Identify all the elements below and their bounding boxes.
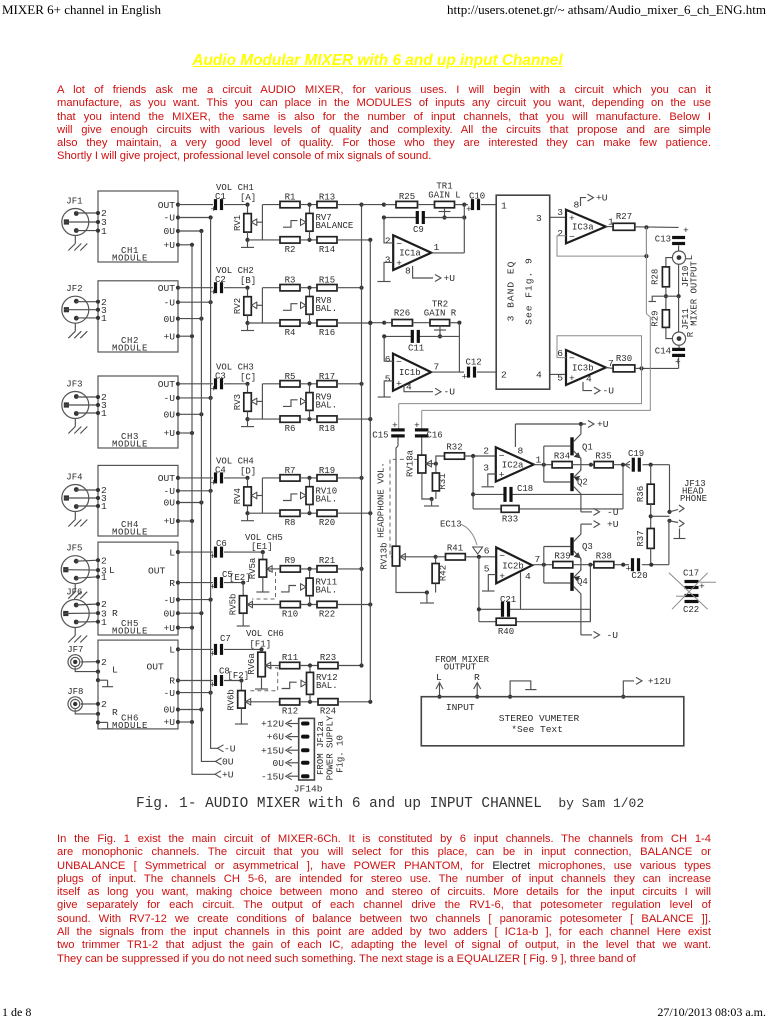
svg-text:0U: 0U (163, 226, 175, 237)
svg-text:C15: C15 (372, 431, 388, 441)
resistor R22 (317, 601, 337, 607)
svg-text:6: 6 (385, 354, 391, 365)
svg-text:R20: R20 (319, 518, 335, 528)
op-amp IC3b (566, 350, 606, 385)
svg-text:R1: R1 (285, 193, 296, 203)
power pin +6V (288, 736, 299, 738)
svg-text:C17: C17 (683, 569, 699, 579)
svg-text:-U: -U (163, 486, 175, 497)
svg-text:1: 1 (101, 408, 107, 419)
svg-text:IC1b: IC1b (399, 368, 421, 378)
wire -V CH4 to -V bus (178, 490, 211, 492)
base wire Q1 (544, 445, 571, 447)
resistor R40 row (479, 621, 496, 623)
volume pot RV1 (247, 205, 249, 214)
svg-text:JF1: JF1 (66, 197, 82, 207)
svg-text:BAL.: BAL. (316, 304, 338, 314)
svg-text:R12: R12 (282, 707, 298, 717)
wire L bus to summing node (362, 204, 384, 206)
svg-text:VOL CH4: VOL CH4 (216, 456, 254, 466)
svg-text:R: R (169, 676, 175, 687)
svg-text:R35: R35 (595, 452, 611, 462)
ground stub JF8 (97, 714, 99, 723)
mid node R28 R29 (665, 287, 667, 310)
svg-text:R11: R11 (282, 653, 298, 663)
page header left (2, 2, 161, 18)
module box CH4 (98, 465, 178, 536)
resistor R20 (317, 510, 337, 516)
output jack JF10 (672, 251, 685, 264)
op-amp IC3a (566, 210, 606, 244)
svg-text:L: L (169, 547, 175, 558)
resistor R12 (280, 699, 300, 705)
wiper wire of RV3 (257, 400, 263, 402)
svg-text:C18: C18 (517, 484, 533, 494)
svg-text:0U: 0U (163, 498, 175, 509)
svg-text:R2: R2 (285, 245, 296, 255)
svg-text:RV3: RV3 (233, 394, 243, 410)
svg-text:C22: C22 (683, 605, 699, 615)
preset symbol RV11 (281, 586, 296, 592)
svg-text:+: + (211, 477, 217, 488)
svg-text:2: 2 (501, 370, 507, 381)
svg-text:R8: R8 (285, 518, 296, 528)
node output L (635, 226, 679, 229)
power wire IC2a pin8 (514, 424, 516, 447)
ground IC1a +input (378, 281, 391, 283)
svg-text:STEREO VUMETER: STEREO VUMETER (499, 713, 580, 724)
svg-text:+: + (569, 373, 575, 384)
svg-text:R: R (474, 672, 480, 683)
resistor R8 (280, 510, 300, 516)
resistor R32 (445, 453, 465, 459)
wiper wire RV6a to R11 (265, 665, 280, 667)
wire JF5 pin1 (76, 577, 98, 578)
svg-text:Fig. 10: Fig. 10 (336, 735, 346, 773)
svg-text:+15U: +15U (261, 745, 284, 756)
resistor R18 (317, 416, 337, 422)
svg-text:R7: R7 (285, 466, 296, 476)
svg-text:-U: -U (163, 595, 175, 606)
wire -V CH5 to bus (178, 599, 211, 601)
power pin 0V (288, 762, 299, 764)
ground of JF1 (74, 236, 76, 244)
svg-text:EC13: EC13 (440, 520, 462, 530)
wire wiper link vertical (261, 288, 263, 323)
svg-text:4: 4 (536, 370, 542, 381)
resistor R36 (650, 465, 652, 485)
ground of RV2 (247, 315, 249, 323)
svg-text:MODULE: MODULE (112, 627, 148, 637)
balance pot RV8 (309, 288, 311, 297)
resistor R6 (280, 416, 300, 422)
svg-text:C10: C10 (469, 192, 485, 202)
svg-text:IC3a: IC3a (572, 223, 594, 233)
-V arrow Q2 (581, 511, 592, 513)
capacitor C10 (464, 204, 468, 206)
page footer left (2, 1005, 31, 1020)
mid node R36 R37 (650, 504, 652, 528)
wire wiper link vertical (261, 205, 263, 240)
capacitor C5 (178, 582, 213, 584)
svg-text:MODULE: MODULE (112, 254, 148, 264)
+V arrow IC3a (581, 198, 587, 206)
resistor R3 (280, 285, 300, 291)
svg-text:R: R (112, 608, 118, 619)
wiper wire of RV2 (257, 304, 263, 306)
balance pot RV12 (309, 666, 311, 673)
wiper wire RV6b to R12 (245, 701, 280, 703)
svg-text:R33: R33 (502, 515, 518, 525)
-V bus arrow (218, 745, 224, 752)
svg-text:MODULE: MODULE (112, 344, 148, 354)
wire noninverting IC2b (488, 575, 496, 591)
svg-text:Q4: Q4 (577, 577, 588, 587)
wire R20 to R bus (337, 512, 370, 514)
op-amp IC1b (393, 354, 431, 391)
svg-text:R: R (686, 331, 696, 337)
wire R19 to L bus (337, 477, 362, 479)
preset symbol RV12 (282, 682, 297, 688)
svg-text:MODULE: MODULE (112, 721, 148, 731)
svg-text:OUT: OUT (158, 283, 176, 294)
svg-text:OUT: OUT (158, 200, 176, 211)
svg-text:HEADPHONE VOL.: HEADPHONE VOL. (377, 462, 387, 538)
svg-text:1: 1 (101, 572, 107, 583)
ground RV13b R42 (396, 566, 427, 593)
resistor R19 (317, 475, 337, 481)
resistor R24 (318, 699, 338, 705)
svg-text:2: 2 (101, 657, 107, 668)
transistor Q3 (570, 537, 573, 555)
resistor R34 (552, 462, 572, 468)
top row wire to resistor R5 (262, 383, 280, 385)
base wire Q3 (544, 546, 571, 548)
XLR connector JF3 (62, 392, 89, 419)
svg-text:C13: C13 (655, 235, 671, 245)
svg-text:C11: C11 (408, 344, 424, 354)
svg-text:+: + (466, 204, 472, 215)
wire R37 down (650, 548, 652, 565)
svg-text:+U: +U (607, 519, 619, 530)
wire R29 to JF11 (666, 327, 673, 338)
svg-text:0U: 0U (272, 758, 284, 769)
power pin +12V (288, 723, 299, 725)
svg-text:3 BAND EQ: 3 BAND EQ (506, 261, 517, 322)
resistor R15 (317, 285, 337, 291)
node E2 (224, 582, 243, 584)
wire -V CH3 to -V bus (178, 397, 211, 399)
capacitor C20 (631, 558, 634, 571)
svg-text:IC2b: IC2b (502, 561, 524, 571)
svg-text:2: 2 (101, 699, 107, 710)
svg-text:C20: C20 (631, 571, 647, 581)
resistor R4 (280, 320, 300, 326)
resistor R40 (496, 618, 516, 625)
svg-text:2: 2 (483, 446, 489, 457)
svg-text:1: 1 (434, 242, 440, 253)
vertical feedback to output (463, 205, 465, 253)
svg-text:[D]: [D] (240, 466, 256, 476)
svg-text:OUTPUT: OUTPUT (444, 663, 477, 673)
op-amp IC1a (393, 235, 431, 270)
bottom row wire to resistor R8 (248, 512, 281, 514)
svg-text:R36: R36 (636, 486, 646, 502)
ground IC2a (482, 486, 495, 488)
resistor R13 (317, 201, 337, 207)
svg-text:+U: +U (163, 331, 175, 342)
top row wire to resistor R7 (262, 477, 280, 479)
wiper RV13a node (426, 463, 436, 465)
svg-text:C21: C21 (500, 595, 516, 605)
svg-text:R27: R27 (616, 212, 632, 222)
svg-text:8: 8 (518, 445, 524, 456)
capacitor C6 (178, 551, 213, 553)
feedback wire C9 row (384, 217, 416, 219)
node after R9 (300, 568, 317, 570)
svg-text:8: 8 (574, 200, 580, 211)
preset symbol of RV8 (283, 304, 298, 311)
resistor R11 (280, 662, 300, 668)
capacitor C18 row (473, 493, 503, 495)
node after C20 (642, 564, 669, 566)
svg-text:+: + (626, 564, 632, 575)
crossed out capacitor C22 (685, 594, 699, 597)
svg-text:+12U: +12U (648, 676, 671, 687)
svg-text:R19: R19 (319, 466, 335, 476)
wire JF4 pin2 (76, 489, 98, 491)
svg-text:R6: R6 (285, 424, 296, 434)
svg-text:C1: C1 (215, 192, 226, 202)
XLR connector JF4 (62, 485, 89, 512)
svg-text:+U: +U (596, 193, 608, 204)
capacitor C9 (416, 211, 419, 224)
wire JF7 sleeve (75, 667, 98, 671)
power connector JF14b (299, 718, 315, 780)
node after R7 (300, 477, 317, 479)
capacitor C4 (214, 472, 217, 483)
volume pot RV3 (247, 384, 249, 393)
VU meter box (421, 697, 684, 746)
svg-text:0U: 0U (222, 756, 234, 767)
wire wiper link vertical (261, 478, 263, 513)
wire OUT row to capacitor C1 (178, 204, 213, 206)
wire JF5 pin2 (76, 560, 98, 561)
svg-text:-U: -U (224, 743, 236, 754)
svg-text:JF2: JF2 (66, 284, 82, 294)
wire EQ pin3 to IC3a (550, 216, 566, 218)
svg-text:OUT: OUT (147, 662, 165, 673)
ground of RV5a (262, 577, 264, 585)
svg-text:RV5b: RV5b (229, 594, 239, 616)
node after R12 (300, 701, 318, 703)
svg-text:+: + (396, 258, 402, 269)
svg-text:4: 4 (525, 571, 531, 582)
ground of RV1 (247, 232, 249, 240)
+V arrow IC1a (413, 266, 433, 278)
svg-text:R24: R24 (320, 707, 336, 717)
resistor R39 (553, 562, 573, 568)
svg-text:C16: C16 (427, 431, 443, 441)
wire OUT row to capacitor C4 (178, 477, 213, 479)
svg-text:IC3b: IC3b (572, 364, 594, 374)
ground of JF2 (74, 323, 76, 331)
svg-text:8: 8 (405, 265, 411, 276)
svg-text:Q3: Q3 (582, 542, 593, 552)
wire 0V CH2 to 0V bus (178, 318, 201, 320)
ground of RV3 (247, 411, 249, 419)
output node IC2a (534, 464, 552, 466)
wire JF4 pin3 (64, 497, 98, 499)
svg-text:L: L (112, 665, 118, 676)
wire JF1 pin2 (76, 212, 98, 214)
feedback loop IC3a (557, 227, 646, 256)
wire 0V CH1 to 0V bus (178, 230, 201, 232)
svg-text:5: 5 (385, 374, 391, 385)
svg-text:VOL CH6: VOL CH6 (246, 629, 284, 639)
wire +V CH5 to bus (178, 627, 192, 629)
svg-text:4: 4 (586, 374, 592, 385)
svg-text:R: R (169, 578, 175, 589)
svg-text:R21: R21 (319, 556, 335, 566)
trimmer TR2 (413, 322, 431, 324)
capacitor C18 (503, 487, 506, 502)
resistor R29 (662, 310, 669, 328)
power wire IC2b pin4 (520, 573, 522, 610)
wire output IC1b (431, 371, 459, 373)
svg-text:1: 1 (101, 313, 107, 324)
cross out lines (669, 573, 708, 609)
svg-text:R34: R34 (554, 452, 570, 462)
emitter joins (580, 459, 582, 465)
svg-text:+: + (396, 379, 402, 390)
volume pot RV6b (240, 681, 242, 691)
preset symbol of RV9 (283, 400, 298, 407)
svg-text:OUT: OUT (158, 379, 176, 390)
svg-text:R22: R22 (319, 610, 335, 620)
wire JF6 pin2 (76, 604, 98, 605)
resistor R42 (435, 557, 437, 564)
volume pot RV13a (418, 455, 426, 473)
-V arrow IC1b (404, 385, 433, 392)
svg-text:+: + (675, 357, 681, 368)
wire R14 to R bus (337, 239, 370, 241)
svg-text:L: L (685, 255, 695, 260)
page title (0, 52, 755, 70)
power pin +15V (288, 749, 299, 751)
VU ground hook (510, 681, 531, 697)
svg-text:JF7: JF7 (67, 645, 83, 655)
wiper wire of RV4 (257, 495, 263, 497)
bottom row wire to resistor R2 (248, 239, 281, 241)
svg-text:POWER SUPPLY: POWER SUPPLY (326, 715, 336, 780)
feedback vertical from emitters (589, 565, 591, 622)
wire C16 to RV13a (421, 438, 423, 456)
svg-text:R13: R13 (319, 193, 335, 203)
top row wire to resistor R3 (262, 287, 280, 289)
svg-text:RV6b: RV6b (227, 689, 237, 711)
bottom row wire to resistor R4 (248, 322, 281, 324)
svg-text:*See Text: *See Text (511, 724, 563, 735)
resistor R25 (384, 204, 396, 206)
module box CH3 (98, 376, 178, 448)
svg-text:R14: R14 (319, 245, 335, 255)
svg-text:7: 7 (535, 554, 541, 565)
-V arrow IC3b (583, 382, 592, 391)
svg-text:1: 1 (101, 501, 107, 512)
node C (224, 383, 248, 385)
resistor R7 (280, 475, 300, 481)
wire JF8 sleeve (75, 710, 98, 714)
svg-text:R5: R5 (285, 372, 296, 382)
svg-text:+U: +U (163, 240, 175, 251)
RCA connector JF8 (71, 699, 80, 708)
svg-text:C3: C3 (215, 371, 226, 381)
wire R35 to C19 (613, 464, 630, 466)
svg-text:C6: C6 (216, 539, 227, 549)
svg-text:−: − (569, 231, 575, 242)
ground of RV6b (240, 708, 242, 717)
schematic figure 1 (0, 0, 768, 800)
wiper wire RV5b to R10 (247, 604, 280, 606)
emitter node L (572, 464, 594, 466)
svg-text:4: 4 (406, 382, 412, 393)
balance pot RV9 (309, 384, 311, 393)
svg-text:R29: R29 (651, 310, 661, 326)
wire JF3 pin1 (76, 412, 98, 414)
node after R10 (300, 604, 317, 606)
svg-text:MODULE: MODULE (112, 528, 148, 538)
svg-text:1: 1 (536, 455, 542, 466)
resistor R28 (666, 258, 673, 267)
-V +V arrows mid (581, 523, 592, 525)
capacitor C21 (501, 602, 504, 617)
equalizer box 3 BAND EQ (496, 195, 550, 389)
gang dashed link RV5a RV5b (252, 572, 276, 600)
ground of JF4 (74, 512, 76, 520)
svg-text:R: R (112, 707, 118, 718)
feedback wire C11 row (384, 335, 411, 337)
-V arrow Q4 (581, 634, 592, 636)
svg-text:+: + (211, 287, 217, 298)
svg-text:R40: R40 (498, 627, 514, 637)
svg-text:L: L (169, 645, 175, 656)
wire JF11 sleeve (678, 296, 680, 332)
svg-text:-U: -U (444, 387, 456, 398)
svg-text:JF8: JF8 (67, 687, 83, 697)
wire C15 to RV13b (397, 438, 399, 446)
resistor R37 (647, 529, 654, 549)
node after R5 (300, 383, 317, 385)
figure caption (136, 796, 644, 812)
wire R24 to R bus (338, 701, 370, 703)
volume pot RV4 (247, 478, 249, 487)
svg-text:+: + (211, 383, 217, 394)
volume pot RV2 (247, 288, 249, 297)
volume pot RV6a (261, 649, 263, 652)
node after R4 (300, 322, 317, 324)
wire JF8 signal (81, 703, 98, 705)
resistor R38 (594, 562, 614, 568)
svg-text:Q1: Q1 (582, 443, 593, 453)
capacitor C12 (459, 371, 464, 373)
svg-text:+U: +U (163, 717, 175, 728)
svg-text:+U: +U (597, 419, 609, 430)
svg-text:INPUT: INPUT (446, 702, 475, 713)
node R41 out (465, 556, 496, 558)
op-amp IC2b (496, 547, 532, 583)
wire JF2 pin3 (64, 309, 98, 311)
